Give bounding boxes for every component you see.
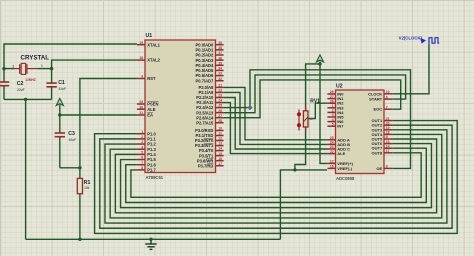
svg-text:OE: OE bbox=[376, 166, 382, 171]
svg-text:START: START bbox=[369, 97, 383, 102]
svg-text:OUT8: OUT8 bbox=[372, 150, 383, 155]
svg-text:36: 36 bbox=[218, 56, 222, 60]
svg-text:7: 7 bbox=[386, 105, 388, 109]
svg-text:22: 22 bbox=[218, 89, 222, 93]
svg-text:VREF(-): VREF(-) bbox=[337, 166, 352, 171]
svg-text:10: 10 bbox=[386, 90, 390, 94]
svg-text:28: 28 bbox=[330, 99, 334, 103]
svg-text:21: 21 bbox=[386, 117, 390, 121]
svg-text:31: 31 bbox=[139, 111, 143, 115]
svg-text:8: 8 bbox=[386, 135, 388, 139]
svg-text:21: 21 bbox=[218, 84, 222, 88]
svg-text:C1: C1 bbox=[58, 80, 65, 86]
svg-text:26: 26 bbox=[330, 90, 334, 94]
svg-text:C2: C2 bbox=[17, 81, 24, 87]
svg-text:27: 27 bbox=[218, 114, 222, 118]
svg-text:CLOCK: CLOCK bbox=[368, 91, 382, 96]
svg-text:24: 24 bbox=[330, 141, 334, 145]
svg-text:22: 22 bbox=[330, 150, 334, 154]
svg-text:25: 25 bbox=[330, 136, 334, 140]
svg-text:2: 2 bbox=[332, 109, 334, 113]
svg-text:P0.7/AD7: P0.7/AD7 bbox=[196, 78, 214, 83]
svg-text:32: 32 bbox=[218, 77, 222, 81]
svg-text:10: 10 bbox=[218, 127, 222, 131]
svg-text:12: 12 bbox=[218, 137, 222, 141]
svg-text:P3.7/RD: P3.7/RD bbox=[198, 163, 214, 168]
svg-text:16: 16 bbox=[330, 165, 334, 169]
svg-text:AT89C51: AT89C51 bbox=[146, 175, 164, 180]
svg-text:6: 6 bbox=[141, 156, 143, 160]
svg-text:2: 2 bbox=[141, 135, 143, 139]
svg-text:RV1: RV1 bbox=[310, 98, 320, 104]
svg-text:15: 15 bbox=[218, 152, 222, 156]
svg-text:P1.7: P1.7 bbox=[147, 167, 156, 172]
svg-text:7: 7 bbox=[141, 161, 143, 165]
svg-text:18: 18 bbox=[139, 56, 143, 60]
svg-text:22uF: 22uF bbox=[59, 87, 66, 91]
svg-text:39: 39 bbox=[218, 41, 222, 45]
svg-text:34: 34 bbox=[218, 67, 222, 71]
svg-text:12: 12 bbox=[330, 160, 334, 164]
svg-text:12MHZ: 12MHZ bbox=[25, 78, 36, 82]
svg-text:25: 25 bbox=[218, 104, 222, 108]
svg-text:18: 18 bbox=[386, 131, 390, 135]
svg-text:23: 23 bbox=[330, 145, 334, 149]
svg-text:10k: 10k bbox=[84, 186, 90, 190]
svg-text:22uF: 22uF bbox=[17, 88, 24, 92]
svg-text:6: 6 bbox=[386, 95, 388, 99]
svg-text:11: 11 bbox=[218, 132, 222, 136]
svg-text:EOC: EOC bbox=[374, 107, 383, 112]
svg-text:28: 28 bbox=[218, 119, 222, 123]
svg-text:23: 23 bbox=[218, 94, 222, 98]
svg-text:ALE: ALE bbox=[147, 107, 155, 112]
svg-text:17: 17 bbox=[386, 149, 390, 153]
svg-text:24: 24 bbox=[218, 99, 222, 103]
svg-text:P2.7/A15: P2.7/A15 bbox=[196, 120, 214, 125]
svg-text:17: 17 bbox=[218, 162, 222, 166]
svg-text:30: 30 bbox=[139, 105, 143, 109]
svg-text:4: 4 bbox=[141, 145, 143, 149]
svg-text:ADC0808: ADC0808 bbox=[336, 176, 355, 181]
svg-text:U1: U1 bbox=[146, 33, 153, 39]
svg-text:C3: C3 bbox=[68, 131, 75, 137]
svg-text:37: 37 bbox=[218, 51, 222, 55]
svg-text:20: 20 bbox=[386, 121, 390, 125]
svg-text:1: 1 bbox=[141, 130, 143, 134]
svg-text:1: 1 bbox=[41, 64, 43, 68]
svg-text:ALE: ALE bbox=[337, 151, 345, 156]
svg-text:8: 8 bbox=[141, 166, 143, 170]
svg-text:15: 15 bbox=[386, 140, 390, 144]
svg-text:RST: RST bbox=[147, 76, 156, 81]
svg-text:29: 29 bbox=[139, 100, 143, 104]
svg-text:2: 2 bbox=[12, 64, 14, 68]
svg-text:1: 1 bbox=[332, 104, 334, 108]
svg-text:27: 27 bbox=[330, 95, 334, 99]
svg-text:13: 13 bbox=[218, 142, 222, 146]
svg-text:26: 26 bbox=[218, 109, 222, 113]
svg-text:9: 9 bbox=[141, 75, 143, 79]
svg-text:9: 9 bbox=[386, 165, 388, 169]
svg-text:1k: 1k bbox=[310, 117, 314, 121]
svg-text:38: 38 bbox=[218, 46, 222, 50]
svg-text:14: 14 bbox=[386, 144, 390, 148]
svg-text:16: 16 bbox=[218, 157, 222, 161]
svg-text:19: 19 bbox=[386, 126, 390, 130]
svg-text:U2: U2 bbox=[336, 83, 343, 89]
svg-text:V2(CLOCK): V2(CLOCK) bbox=[399, 35, 423, 40]
svg-text:CRYSTAL: CRYSTAL bbox=[21, 55, 50, 62]
svg-text:10uF: 10uF bbox=[69, 138, 76, 142]
svg-text:EA: EA bbox=[147, 113, 153, 118]
svg-text:33: 33 bbox=[218, 72, 222, 76]
svg-text:5: 5 bbox=[141, 150, 143, 154]
svg-text:35: 35 bbox=[218, 61, 222, 65]
svg-text:3: 3 bbox=[141, 140, 143, 144]
svg-text:19: 19 bbox=[139, 41, 143, 45]
svg-text:3: 3 bbox=[332, 113, 334, 117]
svg-text:4: 4 bbox=[332, 118, 334, 122]
svg-text:14: 14 bbox=[218, 147, 222, 151]
svg-text:IN7: IN7 bbox=[337, 124, 344, 129]
svg-text:5: 5 bbox=[332, 122, 334, 126]
svg-text:XTAL1: XTAL1 bbox=[147, 42, 160, 47]
svg-text:XTAL2: XTAL2 bbox=[147, 58, 160, 63]
